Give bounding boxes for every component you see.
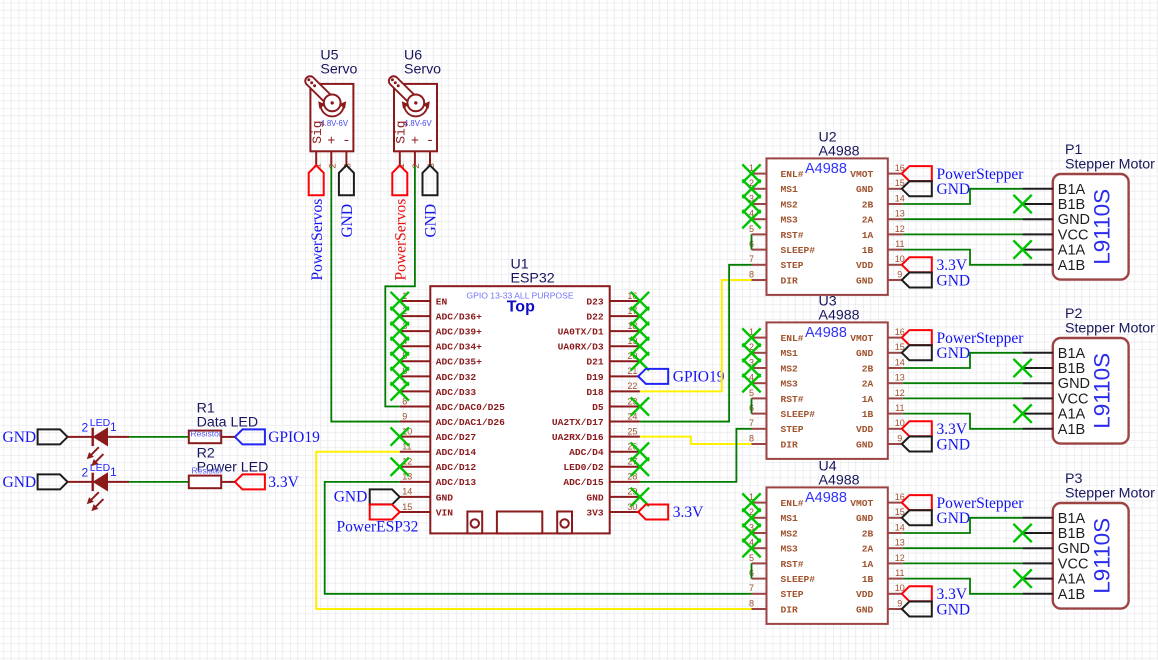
svg-text:STEP: STEP bbox=[781, 260, 804, 271]
svg-text:14: 14 bbox=[402, 487, 412, 497]
power flag PowerESP32 on U1 pin 15 bbox=[370, 504, 400, 519]
no-connect X on U1 pin 12 bbox=[391, 458, 409, 476]
no-connect X on U4 pin 3 bbox=[742, 524, 760, 542]
svg-text:D19: D19 bbox=[586, 372, 604, 383]
svg-text:D21: D21 bbox=[586, 357, 604, 368]
svg-text:3.3V: 3.3V bbox=[673, 504, 704, 521]
svg-text:GND: GND bbox=[334, 489, 368, 506]
svg-text:ADC/D36+: ADC/D36+ bbox=[436, 311, 482, 322]
svg-text:Sig: Sig bbox=[310, 120, 325, 143]
svg-text:D22: D22 bbox=[586, 311, 604, 322]
pin 10 of U2 (VDD) bbox=[888, 264, 903, 266]
svg-text:STEP: STEP bbox=[781, 424, 804, 435]
no-connect X on U4 pin 4 bbox=[742, 539, 760, 557]
svg-text:1A: 1A bbox=[862, 394, 874, 405]
svg-text:Servo: Servo bbox=[404, 61, 441, 77]
svg-text:ADC/DAC1/D26: ADC/DAC1/D26 bbox=[436, 417, 505, 428]
wire U1 pin11 (ADC/D14) to U4 DIR bbox=[316, 452, 751, 609]
svg-text:GPIO19: GPIO19 bbox=[268, 429, 320, 446]
svg-text:ADC/D33: ADC/D33 bbox=[436, 387, 477, 398]
svg-text:9: 9 bbox=[897, 269, 902, 279]
pin 4 of P3 (VCC) bbox=[1023, 562, 1053, 564]
svg-text:B1B: B1B bbox=[1058, 197, 1085, 213]
pin 29 of U1 (GND) bbox=[610, 496, 640, 498]
wire LED1 to resistor R1 bbox=[108, 436, 130, 438]
svg-text:2B: 2B bbox=[862, 363, 874, 374]
pin 5 of U4 (RST#) bbox=[752, 562, 767, 564]
svg-text:3.3V: 3.3V bbox=[268, 474, 299, 491]
pin 21 of U1 (D19) bbox=[610, 375, 640, 377]
svg-text:GND: GND bbox=[3, 474, 37, 491]
svg-text:LED0/D2: LED0/D2 bbox=[563, 462, 604, 473]
pin 1 of U6 bbox=[399, 151, 401, 166]
svg-text:1A: 1A bbox=[862, 559, 874, 570]
no-connect X on U3 pin 4 bbox=[742, 374, 760, 392]
svg-text:GND: GND bbox=[937, 510, 971, 527]
pin 5 of U3 (RST#) bbox=[752, 397, 767, 399]
power flag 3.3V on U4 pin 10 bbox=[902, 586, 932, 601]
pin 3 of P1 (GND) bbox=[1023, 218, 1053, 220]
pin 13 of U3 (2A) bbox=[888, 382, 903, 384]
no-connect X on U1 pin 2 bbox=[391, 307, 409, 325]
svg-text:8: 8 bbox=[749, 269, 754, 279]
svg-text:MS1: MS1 bbox=[781, 184, 799, 195]
driver U4 A4988 body bbox=[767, 487, 888, 624]
pin 13 of U4 (2A) bbox=[888, 547, 903, 549]
driver U2 A4988 body bbox=[767, 158, 888, 295]
svg-text:UA2RX/D16: UA2RX/D16 bbox=[552, 432, 604, 443]
svg-text:ADC/D34+: ADC/D34+ bbox=[436, 342, 482, 353]
pin 9 of U4 (GND) bbox=[888, 608, 903, 610]
svg-text:B1A: B1A bbox=[1058, 346, 1086, 362]
ground flag GND (U6) bbox=[423, 165, 438, 195]
pin 14 of U4 (2B) bbox=[888, 532, 903, 534]
svg-text:SLEEP#: SLEEP# bbox=[781, 574, 816, 585]
svg-text:3V3: 3V3 bbox=[586, 507, 604, 518]
wire U4 2A to P3 GND bbox=[903, 547, 1023, 549]
svg-text:VMOT: VMOT bbox=[850, 498, 873, 509]
pin 6 of P3 (A1B) bbox=[1023, 593, 1053, 595]
pin 24 of U1 (UA2TX/D17) bbox=[610, 421, 640, 423]
svg-text:L9110S: L9110S bbox=[1090, 189, 1115, 265]
svg-text:A1B: A1B bbox=[1058, 258, 1085, 274]
svg-text:D23: D23 bbox=[586, 296, 604, 307]
wire U3 2A to P2 GND bbox=[903, 382, 1023, 384]
LED LED2 bbox=[88, 473, 108, 511]
svg-text:GND: GND bbox=[856, 275, 874, 286]
pin 3 of U6 bbox=[429, 151, 431, 166]
microcontroller U1 ESP32 body bbox=[430, 286, 609, 533]
svg-text:VIN: VIN bbox=[436, 507, 454, 518]
pin 7 of U3 (STEP) bbox=[752, 428, 767, 430]
svg-text:L9110S: L9110S bbox=[1090, 353, 1115, 429]
svg-text:GPIO19: GPIO19 bbox=[673, 369, 725, 386]
svg-text:1B: 1B bbox=[862, 574, 874, 585]
pin 25 of U1 (UA2RX/D16) bbox=[610, 436, 640, 438]
pin 11 of U1 (ADC/D14) bbox=[400, 451, 431, 453]
no-connect X on U1 pin 20 bbox=[631, 352, 649, 370]
pin 10 of U4 (VDD) bbox=[888, 593, 903, 595]
wire resistor R2 to net flag bbox=[221, 481, 235, 483]
pin 10 of U3 (VDD) bbox=[888, 428, 903, 430]
svg-text:ENL#: ENL# bbox=[781, 333, 804, 344]
svg-text:ADC/D35+: ADC/D35+ bbox=[436, 357, 482, 368]
svg-text:A4988: A4988 bbox=[819, 472, 860, 488]
no-connect X on P3 pin A1A bbox=[1013, 569, 1031, 587]
svg-text:GND: GND bbox=[937, 272, 971, 289]
svg-text:2: 2 bbox=[411, 163, 422, 168]
mounting pad (U1 middle) bbox=[497, 512, 542, 534]
wire U2 2A to P1 GND bbox=[903, 218, 1023, 220]
svg-text:GND: GND bbox=[937, 436, 971, 453]
svg-text:A4988: A4988 bbox=[805, 161, 847, 177]
svg-text:MS2: MS2 bbox=[781, 363, 799, 374]
no-connect X on U1 pin 16 bbox=[631, 292, 649, 310]
svg-text:VDD: VDD bbox=[856, 424, 874, 435]
no-connect X on U1 pin 18 bbox=[631, 322, 649, 340]
pin 1 of P2 (B1A) bbox=[1023, 352, 1053, 354]
svg-text:-: - bbox=[342, 134, 350, 149]
wire U1 pin25 (UA2RX/D16) to U3 DIR bbox=[640, 437, 752, 444]
svg-text:VCC: VCC bbox=[1058, 227, 1089, 243]
net flag 3.3V (row 2) bbox=[235, 474, 265, 489]
svg-text:VDD: VDD bbox=[856, 589, 874, 600]
wire U1 pin13 (ADC/D13) to U4 STEP bbox=[325, 482, 752, 594]
pin 1 of U1 (EN) bbox=[400, 300, 431, 302]
pin 16 of U2 (VMOT) bbox=[888, 173, 903, 175]
svg-text:ADC/D4: ADC/D4 bbox=[569, 447, 604, 458]
svg-text:1A: 1A bbox=[862, 230, 874, 241]
no-connect X on U2 pin 1 bbox=[742, 164, 760, 182]
pin 11 of U2 (1B) bbox=[888, 249, 903, 251]
power flag 3.3V on U1 pin 30 bbox=[638, 504, 668, 519]
svg-text:GND: GND bbox=[856, 604, 874, 615]
no-connect X on P2 pin A1A bbox=[1013, 404, 1031, 422]
svg-text:RST#: RST# bbox=[781, 230, 804, 241]
pin 27 of U1 (LED0/D2) bbox=[610, 466, 640, 468]
svg-text:Stepper Motor: Stepper Motor bbox=[1065, 157, 1155, 173]
svg-text:Resistor: Resistor bbox=[191, 428, 222, 438]
svg-text:GND: GND bbox=[1058, 376, 1090, 392]
svg-text:25: 25 bbox=[627, 426, 637, 436]
pin 15 of U3 (GND) bbox=[888, 352, 903, 354]
svg-text:GND: GND bbox=[856, 439, 874, 450]
svg-text:MS3: MS3 bbox=[781, 544, 799, 555]
svg-text:DIR: DIR bbox=[781, 275, 799, 286]
svg-text:ENL#: ENL# bbox=[781, 169, 804, 180]
pin 4 of P1 (VCC) bbox=[1023, 233, 1053, 235]
no-connect X on P1 pin A1A bbox=[1013, 240, 1031, 258]
pin 13 of U2 (2A) bbox=[888, 218, 903, 220]
power flag 3.3V on U2 pin 10 bbox=[902, 257, 932, 272]
no-connect X on U3 pin 3 bbox=[742, 359, 760, 377]
pin 3 of P3 (GND) bbox=[1023, 547, 1053, 549]
svg-text:VDD: VDD bbox=[856, 260, 874, 271]
wire U1 pin24 (UA2TX/D17) to U2 STEP bbox=[640, 265, 752, 422]
wire U3 RST# to SLEEP# (pins 5-6) bbox=[751, 398, 753, 413]
pin 7 of U2 (STEP) bbox=[752, 264, 767, 266]
pin 23 of U1 (D5) bbox=[610, 405, 640, 407]
svg-text:D18: D18 bbox=[586, 387, 604, 398]
svg-text:B1A: B1A bbox=[1058, 511, 1086, 527]
pin 2 of P2 (B1B) bbox=[1023, 367, 1053, 369]
net flag GPIO19 on U1 pin 21 bbox=[638, 369, 668, 384]
pin 8 of U4 (DIR) bbox=[752, 608, 767, 610]
svg-text:GND: GND bbox=[436, 492, 454, 503]
connector P1 Stepper Motor body bbox=[1053, 174, 1129, 280]
wire U4 2B to P3 B1A bbox=[903, 518, 1023, 533]
svg-text:ADC/D14: ADC/D14 bbox=[436, 447, 477, 458]
pin 16 of U1 (D23) bbox=[610, 300, 640, 302]
svg-text:MS1: MS1 bbox=[781, 348, 799, 359]
svg-text:B1B: B1B bbox=[1058, 361, 1085, 377]
svg-text:A4988: A4988 bbox=[819, 143, 860, 159]
ground flag GND on U1 pin 14 bbox=[370, 489, 400, 504]
pin 14 of U2 (2B) bbox=[888, 203, 903, 205]
svg-text:A1B: A1B bbox=[1058, 422, 1085, 438]
svg-text:UA0TX/D1: UA0TX/D1 bbox=[558, 327, 604, 338]
svg-text:5: 5 bbox=[749, 224, 754, 234]
pin 4 of U2 (MS3) bbox=[752, 218, 767, 220]
pin 4 of P2 (VCC) bbox=[1023, 397, 1053, 399]
wire GND-flag to LED2 bbox=[68, 481, 93, 483]
svg-text:ESP32: ESP32 bbox=[511, 270, 555, 286]
svg-text:SLEEP#: SLEEP# bbox=[781, 409, 816, 420]
svg-text:A1A: A1A bbox=[1058, 407, 1086, 423]
svg-text:A4988: A4988 bbox=[805, 490, 847, 506]
no-connect X on U1 pin 1 bbox=[391, 292, 409, 310]
svg-text:8: 8 bbox=[749, 433, 754, 443]
pin 11 of U3 (1B) bbox=[888, 413, 903, 415]
servo U6 bbox=[391, 78, 437, 151]
pin 5 of P1 (A1A) bbox=[1023, 249, 1053, 251]
svg-text:PowerServos: PowerServos bbox=[309, 199, 326, 281]
pin 1 of U3 (ENL#) bbox=[752, 337, 767, 339]
no-connect X on U2 pin 3 bbox=[742, 195, 760, 213]
wire GND-flag to LED1 bbox=[68, 436, 93, 438]
servo U5 bbox=[307, 78, 353, 151]
svg-text:9: 9 bbox=[897, 598, 902, 608]
pin 7 of U4 (STEP) bbox=[752, 593, 767, 595]
svg-text:PowerESP32: PowerESP32 bbox=[337, 518, 419, 535]
svg-text:LED: LED bbox=[90, 462, 111, 474]
svg-text:ADC/D13: ADC/D13 bbox=[436, 477, 477, 488]
svg-text:12: 12 bbox=[895, 224, 905, 234]
svg-text:2: 2 bbox=[328, 163, 339, 168]
pin 1 of P1 (B1A) bbox=[1023, 188, 1053, 190]
pin 9 of U1 (ADC/DAC1/D26) bbox=[400, 421, 431, 423]
pin 2 of U5 bbox=[330, 151, 332, 166]
svg-text:14: 14 bbox=[895, 522, 905, 532]
pin 3 of U1 (ADC/D39+) bbox=[400, 330, 431, 332]
wire U2 RST# to SLEEP# (pins 5-6) bbox=[751, 234, 753, 249]
no-connect X on U4 pin 1 bbox=[742, 493, 760, 511]
pin 14 of U3 (2B) bbox=[888, 367, 903, 369]
wire resistor R1 to net flag bbox=[221, 436, 235, 438]
svg-text:+: + bbox=[327, 135, 335, 150]
pin 15 of U4 (GND) bbox=[888, 517, 903, 519]
svg-text:7: 7 bbox=[749, 254, 754, 264]
ground flag GND on U2 pin 15 bbox=[902, 181, 932, 196]
pin 19 of U1 (UA0RX/D3) bbox=[610, 345, 640, 347]
svg-text:ADC/DAC0/D25: ADC/DAC0/D25 bbox=[436, 402, 505, 413]
power flag 3.3V on U3 pin 10 bbox=[902, 421, 932, 436]
svg-text:9: 9 bbox=[897, 433, 902, 443]
svg-text:11: 11 bbox=[895, 403, 904, 413]
svg-text:ADC/D27: ADC/D27 bbox=[436, 432, 477, 443]
ground flag GND on U3 pin 9 bbox=[902, 437, 932, 452]
pin 9 of U2 (GND) bbox=[888, 279, 903, 281]
svg-text:11: 11 bbox=[895, 239, 904, 249]
power flag PowerStepper on U3 pin 16 bbox=[902, 330, 932, 345]
pin 3 of U5 bbox=[345, 151, 347, 166]
pin 30 of U1 (3V3) bbox=[610, 511, 640, 513]
no-connect X on U1 pin 27 bbox=[631, 458, 649, 476]
svg-text:Stepper Motor: Stepper Motor bbox=[1065, 486, 1155, 502]
no-connect X on U3 pin 2 bbox=[742, 344, 760, 362]
power flag PowerStepper on U4 pin 16 bbox=[902, 495, 932, 510]
svg-text:GND: GND bbox=[1058, 541, 1090, 557]
svg-text:GND: GND bbox=[937, 345, 971, 362]
svg-text:1: 1 bbox=[110, 465, 117, 479]
pin 3 of U4 (MS2) bbox=[752, 532, 767, 534]
pin 8 of U2 (DIR) bbox=[752, 279, 767, 281]
pin 5 of P3 (A1A) bbox=[1023, 578, 1053, 580]
pin 6 of U1 (ADC/D32) bbox=[400, 375, 431, 377]
svg-text:1B: 1B bbox=[862, 245, 874, 256]
pin 12 of U3 (1A) bbox=[888, 397, 903, 399]
pin 3 of U2 (MS2) bbox=[752, 203, 767, 205]
pin 5 of P2 (A1A) bbox=[1023, 413, 1053, 415]
power flag PowerServos (U5) bbox=[309, 165, 324, 195]
no-connect X on U1 pin 7 bbox=[391, 382, 409, 400]
pin 2 of P1 (B1B) bbox=[1023, 203, 1053, 205]
svg-text:DIR: DIR bbox=[781, 604, 799, 615]
pin 2 of U1 (ADC/D36+) bbox=[400, 315, 431, 317]
pin 6 of P1 (A1B) bbox=[1023, 264, 1053, 266]
svg-text:UA0RX/D3: UA0RX/D3 bbox=[558, 342, 604, 353]
wire U3 1B to P2 A1B bbox=[903, 414, 1023, 429]
pin 7 of U1 (ADC/D33) bbox=[400, 390, 431, 392]
mounting pad with hole (U1 left) bbox=[467, 512, 482, 534]
pin 26 of U1 (ADC/D4) bbox=[610, 451, 640, 453]
pin 15 of U2 (GND) bbox=[888, 188, 903, 190]
svg-text:VMOT: VMOT bbox=[850, 169, 873, 180]
no-connect X on U2 pin 2 bbox=[742, 180, 760, 198]
svg-text:14: 14 bbox=[895, 357, 905, 367]
pin 12 of U1 (ADC/D12) bbox=[400, 466, 431, 468]
svg-text:ADC/D39+: ADC/D39+ bbox=[436, 327, 482, 338]
no-connect X on P2 pin B1B bbox=[1013, 359, 1031, 377]
svg-text:RST#: RST# bbox=[781, 394, 804, 405]
svg-text:9: 9 bbox=[402, 411, 407, 421]
svg-text:MS1: MS1 bbox=[781, 513, 799, 524]
pin 2 of U3 (MS1) bbox=[752, 352, 767, 354]
no-connect X on U2 pin 4 bbox=[742, 210, 760, 228]
svg-text:Sig: Sig bbox=[394, 120, 409, 143]
svg-text:12: 12 bbox=[895, 553, 905, 563]
svg-text:VCC: VCC bbox=[1058, 556, 1089, 572]
svg-text:B1A: B1A bbox=[1058, 182, 1086, 198]
pin 4 of U4 (MS3) bbox=[752, 547, 767, 549]
wire LED2 to resistor R2 bbox=[108, 481, 130, 483]
svg-text:7: 7 bbox=[749, 583, 754, 593]
svg-text:2: 2 bbox=[82, 420, 89, 434]
svg-text:7: 7 bbox=[749, 418, 754, 428]
svg-text:L9110S: L9110S bbox=[1090, 518, 1115, 594]
svg-text:+: + bbox=[411, 135, 419, 150]
wire U3 1A to P2 VCC bbox=[903, 397, 1023, 399]
pin 3 of U3 (MS2) bbox=[752, 367, 767, 369]
svg-text:A1B: A1B bbox=[1058, 587, 1085, 603]
pin 11 of U4 (1B) bbox=[888, 578, 903, 580]
pin 4 of U1 (ADC/D34+) bbox=[400, 345, 431, 347]
pin 2 of P3 (B1B) bbox=[1023, 532, 1053, 534]
svg-text:GND: GND bbox=[1058, 212, 1090, 228]
svg-text:11: 11 bbox=[895, 568, 904, 578]
pin 5 of U1 (ADC/D35+) bbox=[400, 360, 431, 362]
ground flag GND on U3 pin 15 bbox=[902, 345, 932, 360]
wire U2 1A to P1 VCC bbox=[903, 233, 1023, 235]
svg-text:GND: GND bbox=[856, 348, 874, 359]
ground flag GND on U4 pin 15 bbox=[902, 510, 932, 525]
svg-text:GND: GND bbox=[937, 601, 971, 618]
svg-text:2B: 2B bbox=[862, 199, 874, 210]
wire U2 1B to P1 A1B bbox=[903, 250, 1023, 265]
connector P3 Stepper Motor body bbox=[1053, 503, 1129, 609]
svg-text:RST#: RST# bbox=[781, 559, 804, 570]
no-connect X on U1 pin 17 bbox=[631, 307, 649, 325]
no-connect X on U1 pin 4 bbox=[391, 337, 409, 355]
svg-text:LED: LED bbox=[90, 417, 111, 429]
pin 1 of P3 (B1A) bbox=[1023, 517, 1053, 519]
svg-text:Stepper Motor: Stepper Motor bbox=[1065, 321, 1155, 337]
svg-text:1: 1 bbox=[110, 420, 117, 434]
svg-text:2: 2 bbox=[82, 465, 89, 479]
svg-text:-: - bbox=[426, 134, 434, 149]
svg-text:GND: GND bbox=[3, 429, 37, 446]
no-connect X on U1 pin 5 bbox=[391, 352, 409, 370]
wire U3 2B to P2 B1A bbox=[903, 353, 1023, 368]
pin 20 of U1 (D21) bbox=[610, 360, 640, 362]
wire U1 pin22 (D18) to U2 DIR bbox=[640, 280, 752, 391]
svg-text:Servo: Servo bbox=[320, 61, 357, 77]
pin 12 of U4 (1A) bbox=[888, 562, 903, 564]
net flag GPIO19 (row 1) bbox=[235, 429, 265, 444]
power flag PowerServos (U6) bbox=[392, 165, 407, 195]
svg-text:ADC/D12: ADC/D12 bbox=[436, 462, 477, 473]
svg-text:A1A: A1A bbox=[1058, 572, 1086, 588]
svg-text:13: 13 bbox=[895, 538, 905, 548]
mounting pad with hole (U1 right) bbox=[557, 512, 572, 534]
svg-text:1B: 1B bbox=[862, 409, 874, 420]
svg-text:ENL#: ENL# bbox=[781, 498, 804, 509]
svg-text:STEP: STEP bbox=[781, 589, 804, 600]
ground flag GND on U4 pin 9 bbox=[902, 602, 932, 617]
svg-text:MS3: MS3 bbox=[781, 215, 799, 226]
no-connect X on U1 pin 23 bbox=[631, 397, 649, 415]
wire U4 RST# to SLEEP# (pins 5-6) bbox=[751, 563, 753, 578]
svg-text:PowerServos: PowerServos bbox=[393, 199, 410, 281]
pin 1 of U4 (ENL#) bbox=[752, 502, 767, 504]
pin 15 of U1 (VIN) bbox=[400, 511, 431, 513]
no-connect X on U3 pin 1 bbox=[742, 328, 760, 346]
wire U4 1B to P3 A1B bbox=[903, 579, 1023, 594]
wire U1 pin28 (ADC/D15) to U3 STEP bbox=[640, 429, 752, 482]
power flag PowerStepper on U2 pin 16 bbox=[902, 166, 932, 181]
svg-text:A1A: A1A bbox=[1058, 243, 1086, 259]
pin 22 of U1 (D18) bbox=[610, 390, 640, 392]
